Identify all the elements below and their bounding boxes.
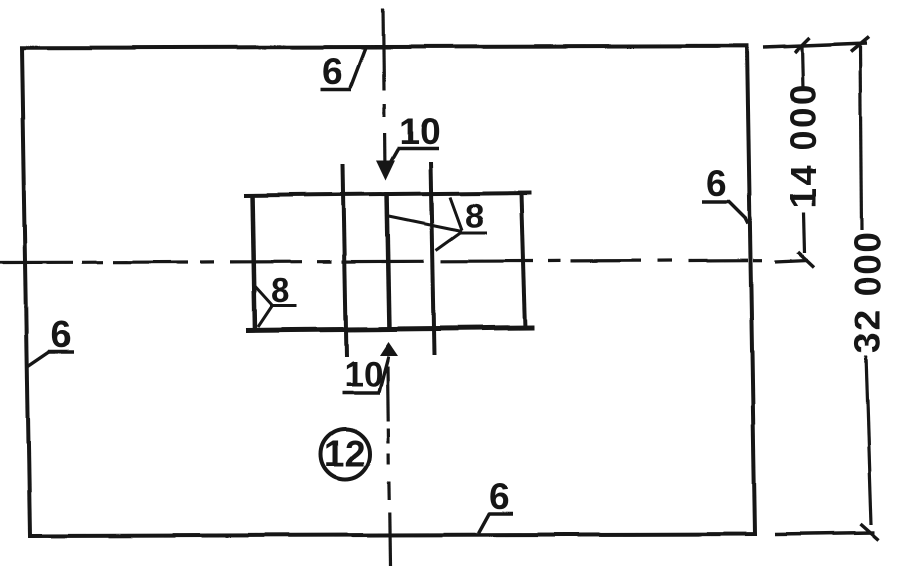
arrow to mesh bottom edge (callout 10) bbox=[380, 342, 399, 356]
inner mesh rectangle bbox=[244, 193, 534, 332]
svg-text:6: 6 bbox=[706, 163, 727, 204]
svg-text:8: 8 bbox=[271, 272, 290, 310]
callout 6 (top edge) bbox=[321, 46, 366, 90]
tick mark 14000 bottom bbox=[798, 252, 814, 267]
dimension line 14000 bbox=[802, 46, 805, 253]
rebar 1 (left vertical bar) bbox=[343, 164, 347, 357]
rebar 3 (right vertical bar) bbox=[431, 162, 435, 355]
svg-text:6: 6 bbox=[489, 476, 510, 517]
position mark 12 (circle) bbox=[321, 429, 370, 479]
callout 8 (lower, leaders to mesh edge) bbox=[253, 284, 297, 327]
extension line top (dimensions) bbox=[763, 44, 867, 48]
dimension line 32000 bbox=[861, 46, 872, 525]
rebar 2 (centre vertical bar) bbox=[387, 192, 390, 331]
callout 10 (top) bbox=[386, 149, 439, 171]
tick mark 32000 bottom bbox=[861, 524, 879, 540]
arrow to mesh top edge (callout 10) bbox=[376, 161, 395, 181]
svg-text:8: 8 bbox=[465, 197, 484, 235]
callout 6 (left edge) bbox=[28, 351, 74, 366]
callout 6 (right edge) bbox=[702, 202, 748, 224]
tick mark 32000 top bbox=[851, 37, 869, 52]
svg-text:6: 6 bbox=[322, 51, 343, 92]
callout 10 (bottom) bbox=[342, 356, 389, 393]
svg-text:6: 6 bbox=[51, 314, 72, 355]
svg-text:32 000: 32 000 bbox=[847, 232, 888, 353]
svg-text:12: 12 bbox=[324, 433, 365, 474]
callout 8 (upper, leaders to bars) bbox=[389, 197, 487, 250]
vertical centre line (dash-dot) bbox=[383, 9, 390, 566]
extension line bottom (32000) bbox=[775, 533, 875, 535]
svg-text:10: 10 bbox=[399, 111, 440, 152]
callout 6 (bottom edge) bbox=[479, 513, 513, 533]
tick mark 14000 top bbox=[794, 38, 809, 53]
extension line at centre line (14000) bbox=[775, 260, 808, 262]
svg-text:10: 10 bbox=[344, 355, 383, 394]
slab outline (outer rectangle) bbox=[22, 46, 755, 536]
svg-text:14 000: 14 000 bbox=[783, 84, 824, 209]
horizontal centre line (dash-dot) bbox=[0, 260, 762, 262]
